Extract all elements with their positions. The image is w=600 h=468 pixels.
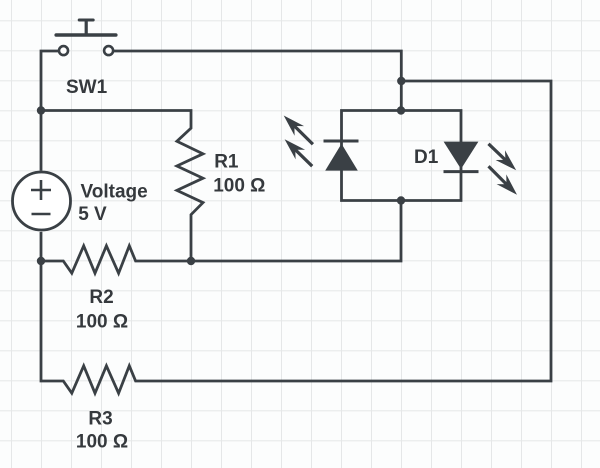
svg-text:R2: R2	[89, 287, 113, 308]
wire: left rail top + SW1 left stub	[41, 51, 59, 171]
LED left: emission arrow upper	[284, 116, 304, 136]
voltage source V1	[13, 172, 71, 230]
wire: SW1 right contact to top-right corner down to junction	[114, 51, 401, 81]
svg-text:100 Ω: 100 Ω	[76, 311, 128, 332]
svg-text:Voltage: Voltage	[81, 182, 148, 203]
LED D1: emission arrow lower	[497, 174, 517, 194]
wire: LED bridge box	[342, 111, 462, 201]
svg-text:5 V: 5 V	[78, 204, 107, 225]
wire: mid wire from junction (191,261) to LED box bottom	[191, 201, 401, 262]
junction at LED box top	[397, 106, 405, 114]
svg-text:R3: R3	[88, 408, 112, 429]
svg-text:100 Ω: 100 Ω	[76, 431, 128, 452]
LED left: emission arrow lower	[285, 139, 306, 159]
pushbutton switch SW1	[56, 20, 116, 55]
LED D1 (right of pair, pointing down): triangle	[444, 142, 479, 169]
LED (left of pair, pointing up): cathode bar	[324, 140, 359, 143]
junction at SW1 wire / right rail	[397, 77, 405, 85]
wire: center vertical from junction (401,81) to LED box top	[400, 81, 403, 111]
junction at R1 bottom / R2 / mid wire	[187, 257, 195, 265]
wire: left rail bottom, resistor R3, bottom wire, right rail	[41, 81, 551, 393]
svg-text:SW1: SW1	[66, 77, 108, 98]
LED D1: cathode bar	[444, 170, 479, 173]
resistor R2	[41, 246, 191, 273]
junction at rail/R1 tee	[37, 106, 45, 114]
svg-text:R1: R1	[214, 151, 239, 172]
svg-text:D1: D1	[414, 147, 439, 168]
junction at rail/R2 tee	[37, 257, 45, 265]
LED D1: emission arrow upper	[496, 150, 517, 170]
resistor R1 (with branch wire from left rail)	[41, 111, 203, 262]
junction at LED box bottom	[397, 196, 405, 204]
LED (left of pair): triangle	[325, 144, 358, 171]
svg-text:100 Ω: 100 Ω	[213, 175, 265, 196]
